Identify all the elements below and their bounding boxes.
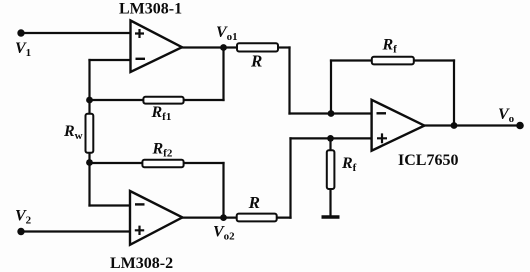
wire to U3 minus input — [290, 112, 373, 114]
wire corner down to output node — [453, 61, 455, 126]
wire into U2 minus input — [90, 204, 131, 206]
svg-text:V1: V1 — [15, 40, 31, 59]
svg-text:Rw: Rw — [63, 123, 83, 142]
wire corner up right of R bottom — [289, 138, 291, 217]
svg-text:Vo: Vo — [498, 106, 515, 125]
node Vo terminal — [516, 122, 524, 130]
wire Rf2 right to corner — [184, 162, 224, 164]
svg-text:Vo1: Vo1 — [216, 24, 238, 43]
wire to U3 plus input — [291, 137, 373, 139]
wire U3 output to Vo terminal — [424, 124, 521, 126]
wire Rw bottom to node C — [88, 153, 90, 163]
wire node B up to Rf top left — [330, 61, 332, 114]
wire Rf1 corner up to node Vo1 — [222, 48, 224, 101]
node Vo2 junction — [220, 214, 227, 221]
wire R bottom right to corner — [277, 217, 291, 219]
node B junction (U3 minus) — [328, 110, 335, 117]
svg-text:Rf: Rf — [341, 155, 357, 174]
wire node C down to U2 minus — [88, 163, 90, 206]
svg-text:Rf2: Rf2 — [152, 141, 173, 160]
svg-text:ICL7650: ICL7650 — [398, 152, 458, 169]
resistor Rf (vertical to ground) — [327, 150, 335, 189]
svg-text:V2: V2 — [15, 208, 32, 227]
wire U1 minus input — [90, 59, 132, 61]
wire U2 output to node Vo2 — [181, 217, 237, 219]
node Vo1 junction — [220, 44, 227, 51]
wire node D down to Rf vertical top — [329, 138, 331, 150]
wire corner to Rf top left end — [331, 59, 372, 61]
resistor Rf2 — [142, 160, 183, 168]
resistor Rf1 — [143, 97, 183, 104]
wire U1 minus down to node A — [88, 60, 90, 100]
node A junction — [86, 97, 93, 104]
op-amp U1 LM308-1 — [131, 21, 183, 73]
op-amp U2 LM308-2 — [130, 191, 182, 245]
svg-text:R: R — [250, 52, 262, 71]
resistor Rf (feedback) — [372, 57, 414, 65]
svg-text:LM308-2: LM308-2 — [110, 255, 173, 272]
wire Rf1 right to corner — [184, 99, 224, 101]
svg-text:Rf: Rf — [382, 37, 398, 56]
node output junction — [451, 122, 458, 129]
op-amp U3 ICL7650 — [372, 100, 425, 151]
wire Rf vertical bottom to ground — [329, 189, 331, 217]
wire Rf top right end to corner — [414, 59, 454, 61]
node V1 terminal — [17, 29, 24, 36]
wire V2 input to U2 plus — [21, 230, 131, 232]
svg-text:LM308-1: LM308-1 — [119, 1, 182, 18]
resistor R (top) — [237, 43, 278, 51]
wire U1 output to node Vo1 — [181, 46, 237, 48]
node V2 terminal — [17, 228, 24, 235]
wire node A down to Rw top — [88, 100, 90, 114]
wire R top right to corner — [278, 46, 290, 48]
ground — [322, 215, 340, 218]
svg-text:R: R — [248, 193, 260, 212]
resistor R (bottom) — [237, 214, 277, 222]
node D junction (U3 plus) — [327, 135, 334, 142]
wire corner down right of R top — [288, 48, 290, 114]
wire corner down to node Vo2 — [222, 163, 224, 218]
wire V1 input to U1 plus — [21, 32, 131, 34]
wire node C to Rf2 left — [90, 162, 143, 164]
svg-text:Vo2: Vo2 — [213, 224, 235, 243]
node C junction — [86, 159, 93, 166]
resistor Rw — [86, 114, 94, 153]
svg-text:Rf1: Rf1 — [151, 104, 172, 123]
wire node A to Rf1 left — [90, 99, 144, 101]
